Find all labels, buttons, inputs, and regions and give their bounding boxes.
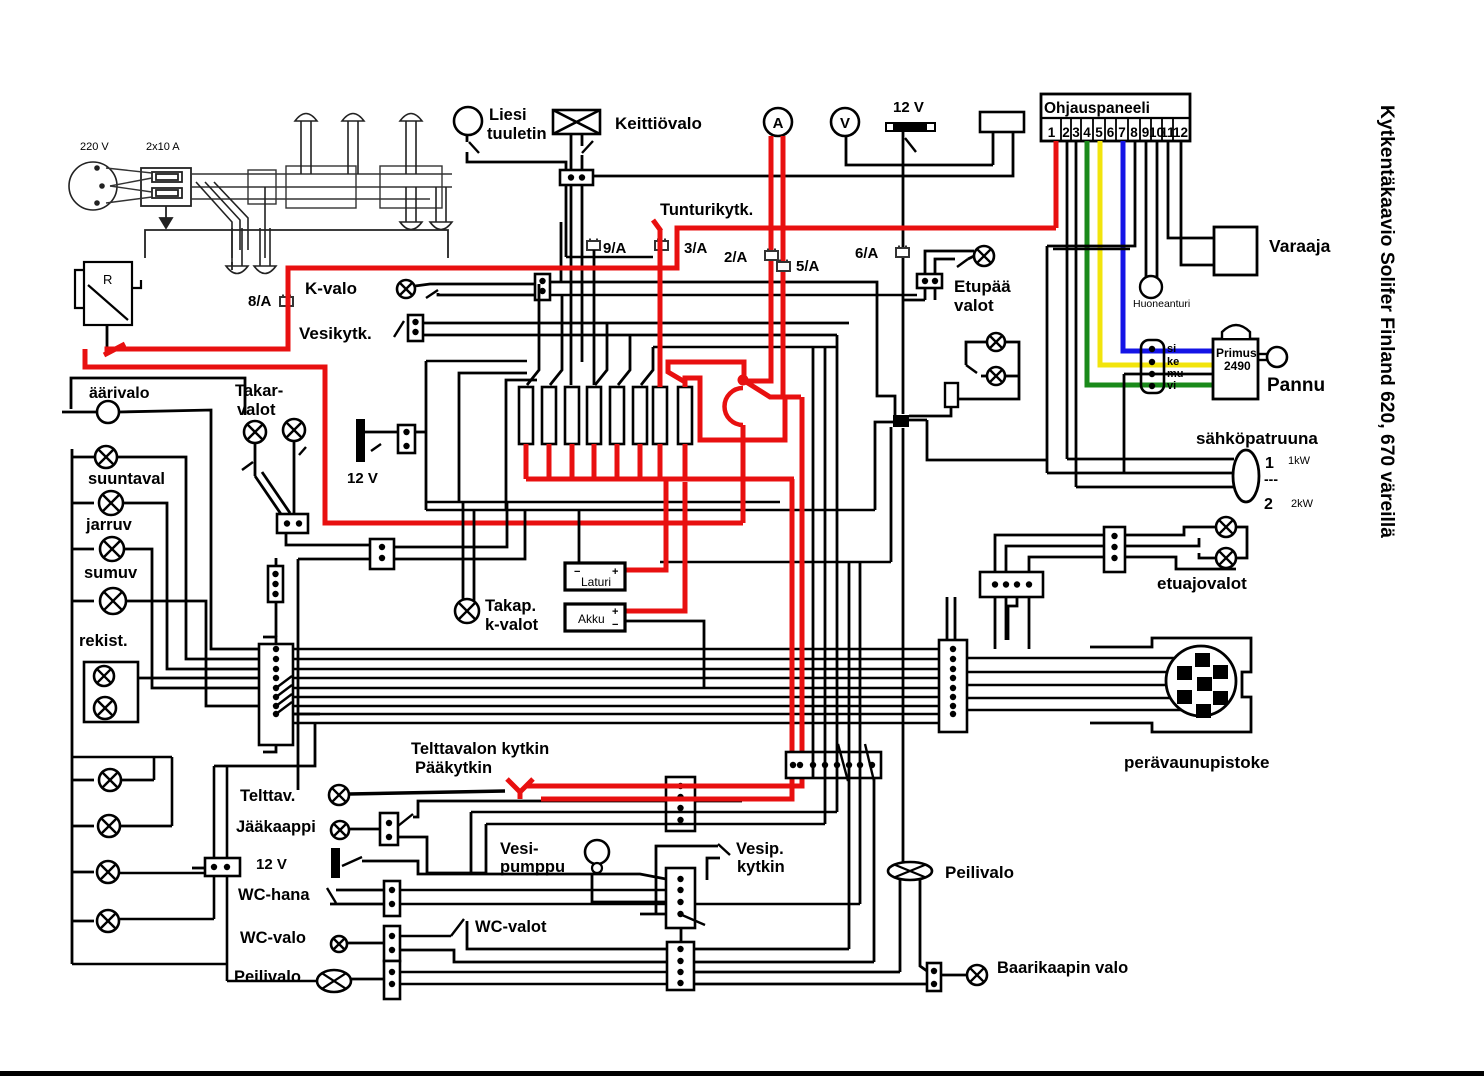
wire baari stub: [941, 974, 968, 977]
wire J2 up2: [954, 597, 957, 640]
wire takap wire left: [298, 558, 370, 561]
wire J3 down2: [1005, 597, 1008, 640]
lamp rekist twin 2: [94, 697, 116, 719]
relay R1: [75, 262, 141, 325]
wire battery to vert: [415, 431, 426, 434]
bank fuse 5: [610, 387, 624, 444]
wire J3 to etu1: [995, 535, 1104, 572]
220V socket at x=411: [400, 114, 422, 175]
svg-text:---: ---: [1264, 471, 1278, 487]
Ohjauspaneeli panel: [1041, 94, 1190, 141]
svg-text:5: 5: [1095, 125, 1103, 140]
svg-text:1: 1: [1265, 455, 1274, 472]
svg-text:sumuv: sumuv: [84, 564, 138, 582]
switch liesi switch: [469, 142, 479, 153]
wire wchana bus1: [400, 889, 666, 892]
panel pin cells: [1061, 118, 1173, 141]
wire red tunturi to fuse7: [658, 230, 663, 387]
svg-text:valot: valot: [237, 401, 276, 419]
wire J3 down4: [1028, 597, 1031, 649]
wire vesip inner: [707, 858, 720, 880]
switch wc-hana switch: [327, 888, 336, 903]
wire pin8 wire: [1047, 141, 1135, 246]
svg-text:4: 4: [1083, 125, 1091, 140]
wire red pk feed top: [668, 362, 744, 382]
connector wide J19: [786, 752, 881, 778]
wire suuntav to strip: [117, 457, 261, 659]
switch 12v switch: [342, 857, 362, 866]
svg-text:12 V: 12 V: [256, 856, 287, 873]
wire vesikytk bus bottom: [423, 334, 837, 337]
wire takap wire1: [394, 502, 507, 547]
wire bus9 y723: [293, 722, 939, 725]
svg-text:8/A: 8/A: [248, 293, 272, 310]
wire v825: [824, 347, 827, 824]
sahkopatruuna heater element: [1233, 450, 1259, 502]
wire plug wire 3: [967, 684, 1197, 687]
wire pin8 link to junction: [927, 420, 1047, 460]
svg-text:Akku: Akku: [578, 612, 605, 626]
plug pins: [1177, 653, 1228, 718]
lamp etupaa lamp1: [974, 246, 994, 266]
wire strip top bracket: [263, 637, 276, 644]
wire twin lamps to strip: [138, 677, 261, 680]
svg-text:k-valot: k-valot: [485, 616, 539, 634]
wire battery wire: [365, 431, 398, 434]
svg-text:Pannu: Pannu: [1267, 375, 1325, 396]
wire red row top: [525, 784, 802, 789]
wire v813: [812, 347, 815, 778]
wire telttav wire: [349, 791, 505, 794]
lamp etupaa lamp2: [987, 333, 1005, 351]
wire lower box top: [73, 756, 172, 759]
wire rail stub y872: [72, 871, 94, 874]
switch battery switch: [371, 444, 381, 451]
wire jaakaappi stub: [349, 828, 380, 831]
wire B1 right leg + bus: [593, 132, 1013, 176]
svg-text:Vesikytk.: Vesikytk.: [299, 324, 372, 343]
lamp baarikaapin valo: [967, 965, 987, 985]
lamp rekist twin 1: [94, 666, 114, 686]
wire jaakaappi wire2: [398, 837, 427, 873]
switch J19 lever2: [865, 744, 874, 781]
wire primus mu wire: [1124, 373, 1213, 376]
wire feeder f1: [527, 284, 539, 385]
fuse 3/A: [655, 239, 668, 251]
wire etupaa3 right: [1005, 375, 1019, 378]
wire liesi wire: [467, 152, 566, 257]
wire J21 top stub: [275, 558, 278, 566]
wire v594 9A feeder: [593, 250, 596, 385]
wire red pin1: [1054, 141, 1059, 228]
wire red trunk1: [107, 228, 1056, 352]
wire rail stub y549: [72, 548, 94, 551]
wire heater wire 2kW: [1076, 486, 1234, 489]
wire red fuse drop 572: [570, 444, 575, 479]
wire etupaa2 left: [966, 342, 987, 365]
svg-text:Peilivalo: Peilivalo: [945, 863, 1014, 882]
Keittiovalo lamp E1: [553, 110, 600, 134]
wire bus1 y649: [293, 648, 939, 651]
wire strip stub: [293, 713, 320, 716]
svg-text:Jääkaappi: Jääkaappi: [236, 818, 316, 836]
wire sumuv to strip: [124, 549, 261, 688]
lamp wc-valo: [331, 936, 347, 952]
svg-text:Tunturikytk.: Tunturikytk.: [660, 201, 753, 219]
wire etupaa wire2: [935, 259, 955, 274]
wire rekist to strip: [126, 601, 261, 706]
wire plug wire 2: [967, 671, 1177, 674]
wire bank left box2: [506, 380, 537, 510]
wire wcvalo bus2: [400, 950, 667, 962]
wire peili leg1: [899, 880, 902, 972]
wire J3 down3 jog: [1008, 597, 1017, 640]
wire pin10 wire: [1156, 141, 1159, 277]
svg-text:R: R: [103, 272, 112, 287]
connector keittio J5: [560, 170, 593, 185]
bank fuse 6: [633, 387, 647, 444]
wire 12v stub left: [192, 867, 205, 870]
wire red fuse drop 617: [615, 444, 620, 479]
lamp etupaa lamp3: [987, 367, 1005, 385]
wire pin8 down: [1046, 246, 1049, 473]
fuse vertical: [945, 383, 958, 407]
svg-text:A: A: [773, 115, 784, 132]
wire red pk stem: [741, 425, 746, 523]
Primus 2490 boiler: [1213, 339, 1258, 399]
svg-text:Liesi: Liesi: [489, 106, 527, 124]
switch vesip switch: [718, 844, 730, 855]
bank fuse 7: [653, 387, 667, 444]
wire red fuse drop 549: [547, 444, 552, 479]
svg-text:WC-valot: WC-valot: [475, 918, 547, 936]
wire red trunk2: [85, 349, 743, 523]
wire takar1 diag: [255, 476, 283, 517]
wire 12v wire: [362, 861, 486, 874]
lamp rekist: [100, 588, 126, 614]
220V socket (down) at x=411: [400, 187, 422, 230]
lamp takar 1: [244, 421, 266, 443]
wire vesip B to C: [680, 928, 683, 942]
top right box B1: [980, 112, 1024, 132]
wire aarivalo to strip: [119, 410, 261, 649]
svg-text:Telttav.: Telttav.: [240, 787, 295, 805]
wire blob left down: [875, 422, 893, 510]
lamp sumuv: [100, 537, 124, 561]
connector primus J6: [1141, 340, 1164, 393]
wire etu wire1: [1125, 527, 1216, 535]
wire J3 to etu3: [1029, 557, 1104, 572]
wire primus mu down: [1123, 374, 1126, 473]
wire pin3 wire: [1075, 141, 1078, 487]
svg-text:WC-hana: WC-hana: [238, 886, 310, 904]
wire v849: [848, 562, 851, 949]
connector takap J11: [370, 539, 394, 569]
wire peili leg2: [920, 880, 927, 971]
connector wc J22: [667, 942, 694, 990]
svg-text:9/A: 9/A: [603, 240, 627, 257]
lamp etuajovalo 1: [1216, 517, 1236, 537]
wire J2 up1: [946, 597, 949, 640]
lamp lamp 780: [99, 769, 121, 791]
switch etupaa switch: [957, 259, 968, 267]
wire etupaa3 stub: [981, 375, 987, 378]
wire takar2 down: [293, 441, 296, 514]
wire blob down left: [890, 427, 893, 562]
svg-text:2: 2: [1264, 496, 1273, 513]
red paakytkin main switch: [738, 375, 749, 386]
wire peilivalo bus1 right: [694, 971, 900, 974]
wire wchana bus2: [400, 903, 860, 906]
wire wcvalo bus2 right: [694, 961, 874, 964]
wire keittio leg1: [570, 134, 573, 170]
wire bus3 y669: [293, 668, 939, 671]
connector vesip J17: [666, 868, 695, 928]
wire peilivalo left link: [227, 980, 318, 983]
wire J3 down1: [994, 597, 997, 649]
wire pin2 wire: [1066, 141, 1069, 459]
wire bus8 y714: [293, 713, 939, 716]
svg-text:Huoneanturi: Huoneanturi: [1133, 298, 1190, 310]
svg-text:Pääkytkin: Pääkytkin: [415, 759, 492, 777]
lamp takap: [455, 599, 479, 623]
wire rail stub y503: [72, 502, 94, 505]
wire wc-valot wire right: [694, 948, 849, 951]
fuse 5/A: [777, 260, 790, 272]
wire red fuse drop 640: [638, 444, 643, 479]
svg-text:Vesip.: Vesip.: [736, 840, 784, 858]
connector vesikytk J9: [408, 315, 423, 341]
fuse box F220: [141, 168, 191, 206]
wire V wire: [846, 136, 993, 165]
wire red fuse drop 594: [592, 444, 597, 479]
wire red A left: [746, 136, 771, 381]
down arrow under fuse box: [160, 206, 172, 228]
lamp telttav: [329, 785, 349, 805]
svg-text:2x10 A: 2x10 A: [146, 141, 180, 153]
switch keittio switch: [582, 141, 593, 153]
wire lamp921 right: [119, 918, 214, 921]
svg-text:Varaaja: Varaaja: [1269, 236, 1331, 256]
switch strip lever 697: [276, 685, 292, 697]
wire heater wire 1kW: [1067, 458, 1234, 461]
wire red fuse bus: [526, 477, 794, 482]
wire vesip box: [656, 846, 718, 915]
svg-text:Telttavalon kytkin: Telttavalon kytkin: [411, 740, 549, 758]
connector wchana J14: [384, 881, 400, 916]
wire takar1 diag2: [262, 472, 290, 513]
lamp peilivalo right: [888, 862, 932, 880]
wire kvalo bus top to blob: [550, 282, 895, 415]
svg-text:kytkin: kytkin: [737, 858, 785, 876]
connector mid J21: [268, 566, 283, 602]
connector jaakaappi J12: [380, 813, 398, 845]
wire takar conn to C2: [286, 533, 370, 545]
wire J7 link: [902, 299, 925, 302]
wire keittio leg2b: [581, 155, 584, 170]
wire red laturi: [625, 479, 666, 570]
box around twin lamps: [84, 662, 138, 722]
wire laturi top wire: [578, 510, 581, 563]
svg-text:perävaunupistoke: perävaunupistoke: [1124, 753, 1270, 772]
svg-text:12 V: 12 V: [347, 470, 378, 487]
wire jaakaappi wire up: [413, 801, 742, 817]
wire v860: [859, 562, 862, 904]
wire left rail: [71, 449, 74, 964]
svg-text:vi: vi: [1167, 380, 1176, 392]
lamp K-valo lamp: [397, 280, 415, 298]
Huoneanturi sensor: [1140, 276, 1162, 298]
wire lower box v172: [171, 757, 174, 826]
wire yellow wire: [1100, 141, 1212, 365]
wire keittio leg2a: [581, 134, 584, 146]
wire etu wire3: [1125, 557, 1236, 569]
svg-text:ke: ke: [1167, 356, 1179, 368]
wire bus7 y706: [293, 705, 939, 708]
Akku box: [565, 604, 625, 631]
svg-text:tuuletin: tuuletin: [487, 125, 547, 143]
wire plug wire 4: [967, 697, 1177, 700]
svg-text:220 V: 220 V: [80, 141, 109, 153]
wire bus2 y659: [293, 658, 939, 661]
wire rail stub y457: [72, 456, 94, 459]
wire vesikytk bus top: [423, 322, 849, 325]
wire 12v wire2: [427, 872, 486, 875]
peravaunupistoke housing: [1090, 638, 1251, 732]
12V busbar supply: [886, 123, 935, 131]
wire bus5 y688: [293, 687, 939, 690]
junction blob X1: [893, 415, 909, 427]
wire red Y left: [507, 779, 520, 792]
wire kitchen vertical top: [902, 131, 905, 414]
fuse 9/A: [587, 239, 600, 251]
svg-text:si: si: [1167, 343, 1176, 355]
border bottom bar: [0, 1071, 1484, 1076]
wire red fuse drop 685: [683, 444, 688, 479]
wire red row bottom: [541, 797, 794, 802]
wire wc-hana stub1: [336, 889, 384, 892]
wire bottom bus 964: [72, 963, 227, 966]
220V socket at x=306: [295, 114, 317, 175]
wire green wire: [1087, 141, 1213, 385]
wire etu wire2: [1125, 538, 1199, 546]
wire v426: [425, 361, 428, 510]
connector wcvalo J15: [384, 926, 400, 961]
svg-text:−: −: [612, 619, 618, 631]
wire red down right: [530, 397, 802, 786]
svg-text:+: +: [612, 566, 618, 578]
wire rail stub y601: [72, 600, 94, 603]
220V mains plug P1: [69, 162, 117, 210]
lamp lamp 921: [97, 910, 119, 932]
svg-text:8: 8: [1130, 125, 1138, 140]
wire takar1 down: [254, 443, 257, 476]
wire etupaa wire2b: [968, 256, 974, 259]
wire bus y562: [660, 561, 891, 564]
wire feeder f5: [618, 335, 630, 385]
wire peilivalo bus2: [400, 983, 667, 986]
svg-text:Kytkentäkaavio Solifer Finland: Kytkentäkaavio Solifer Finland 620, 670 …: [1376, 105, 1397, 538]
lamp jaakaappi: [331, 821, 349, 839]
wire bus y347: [653, 346, 837, 349]
wire kvalo wire bottom: [438, 293, 537, 295]
wire v471: [470, 812, 473, 874]
wire peilivalo stub: [351, 978, 384, 981]
wire etu wire2b: [1199, 553, 1216, 558]
wire aarivalo stub: [62, 411, 97, 414]
connector etupaa J7: [917, 274, 942, 288]
wire plug wire 1: [967, 657, 1177, 660]
bank fuse 4: [587, 387, 601, 444]
wire keittio leg1 down: [570, 185, 573, 385]
wire v214: [213, 766, 216, 919]
peravaunupistoke circle: [1166, 646, 1236, 716]
wire strip to v214 link: [214, 723, 315, 766]
wire bus y510: [426, 509, 875, 512]
Varaaja box: [1214, 227, 1257, 275]
wire wc-valo stub: [347, 942, 384, 945]
wire wc-valot wire: [467, 921, 667, 949]
wire wcvalo bus1: [400, 935, 451, 938]
battery 12V mid: [356, 419, 365, 462]
Laturi box: [565, 563, 625, 590]
wire peilivalo bus1: [400, 971, 667, 974]
wire B1 left leg: [992, 132, 995, 165]
220V socket at x=353: [342, 114, 364, 175]
connector etuajovalot J4: [1104, 527, 1125, 572]
lamp aarivalo: [97, 401, 119, 423]
svg-text:1: 1: [1048, 125, 1056, 140]
svg-text:2kW: 2kW: [1291, 498, 1314, 510]
wire v837: [836, 335, 839, 812]
wire takap wire2: [394, 510, 525, 559]
svg-text:Etupää: Etupää: [954, 277, 1011, 296]
wire J7 down2: [934, 288, 937, 300]
Liesi tuuletin fan M1: [454, 107, 482, 135]
svg-text:6/A: 6/A: [855, 245, 879, 262]
svg-text:7: 7: [1118, 125, 1126, 140]
switch vesikytk switch: [394, 321, 404, 337]
wire 220v to R: [145, 230, 448, 270]
wire bus4 y678: [293, 677, 939, 680]
wire red fuse drop 526: [524, 444, 529, 479]
vesipumppu motor: [585, 840, 609, 864]
wire kitchen vertical bottom: [902, 428, 905, 862]
wire vesip feed: [486, 874, 666, 879]
wire rail stub y921: [72, 920, 94, 923]
wire blue wire: [1123, 141, 1212, 351]
wire vesip stub: [640, 913, 666, 916]
svg-text:1kW: 1kW: [1288, 455, 1311, 467]
svg-text:12: 12: [1173, 125, 1188, 140]
fuse 2/A: [765, 249, 778, 261]
wire pin11 wire: [1168, 141, 1217, 238]
svg-text:K-valo: K-valo: [305, 279, 357, 298]
lamp suuntaval: [95, 446, 117, 468]
Pannu knob: [1258, 353, 1267, 355]
wire etu right link: [1236, 527, 1247, 558]
wire rail stub y780: [72, 779, 94, 782]
switch strip lever 706: [276, 694, 292, 706]
switch takar2 switch: [299, 447, 306, 455]
svg-text:jarruv: jarruv: [85, 516, 133, 534]
bank fuse 3: [565, 387, 579, 444]
wire red lever relay: [104, 344, 125, 355]
switch strip lever 714: [276, 702, 292, 714]
svg-text:3: 3: [1072, 125, 1080, 140]
wire v561: [560, 222, 563, 282]
connector baari J20: [927, 963, 941, 991]
